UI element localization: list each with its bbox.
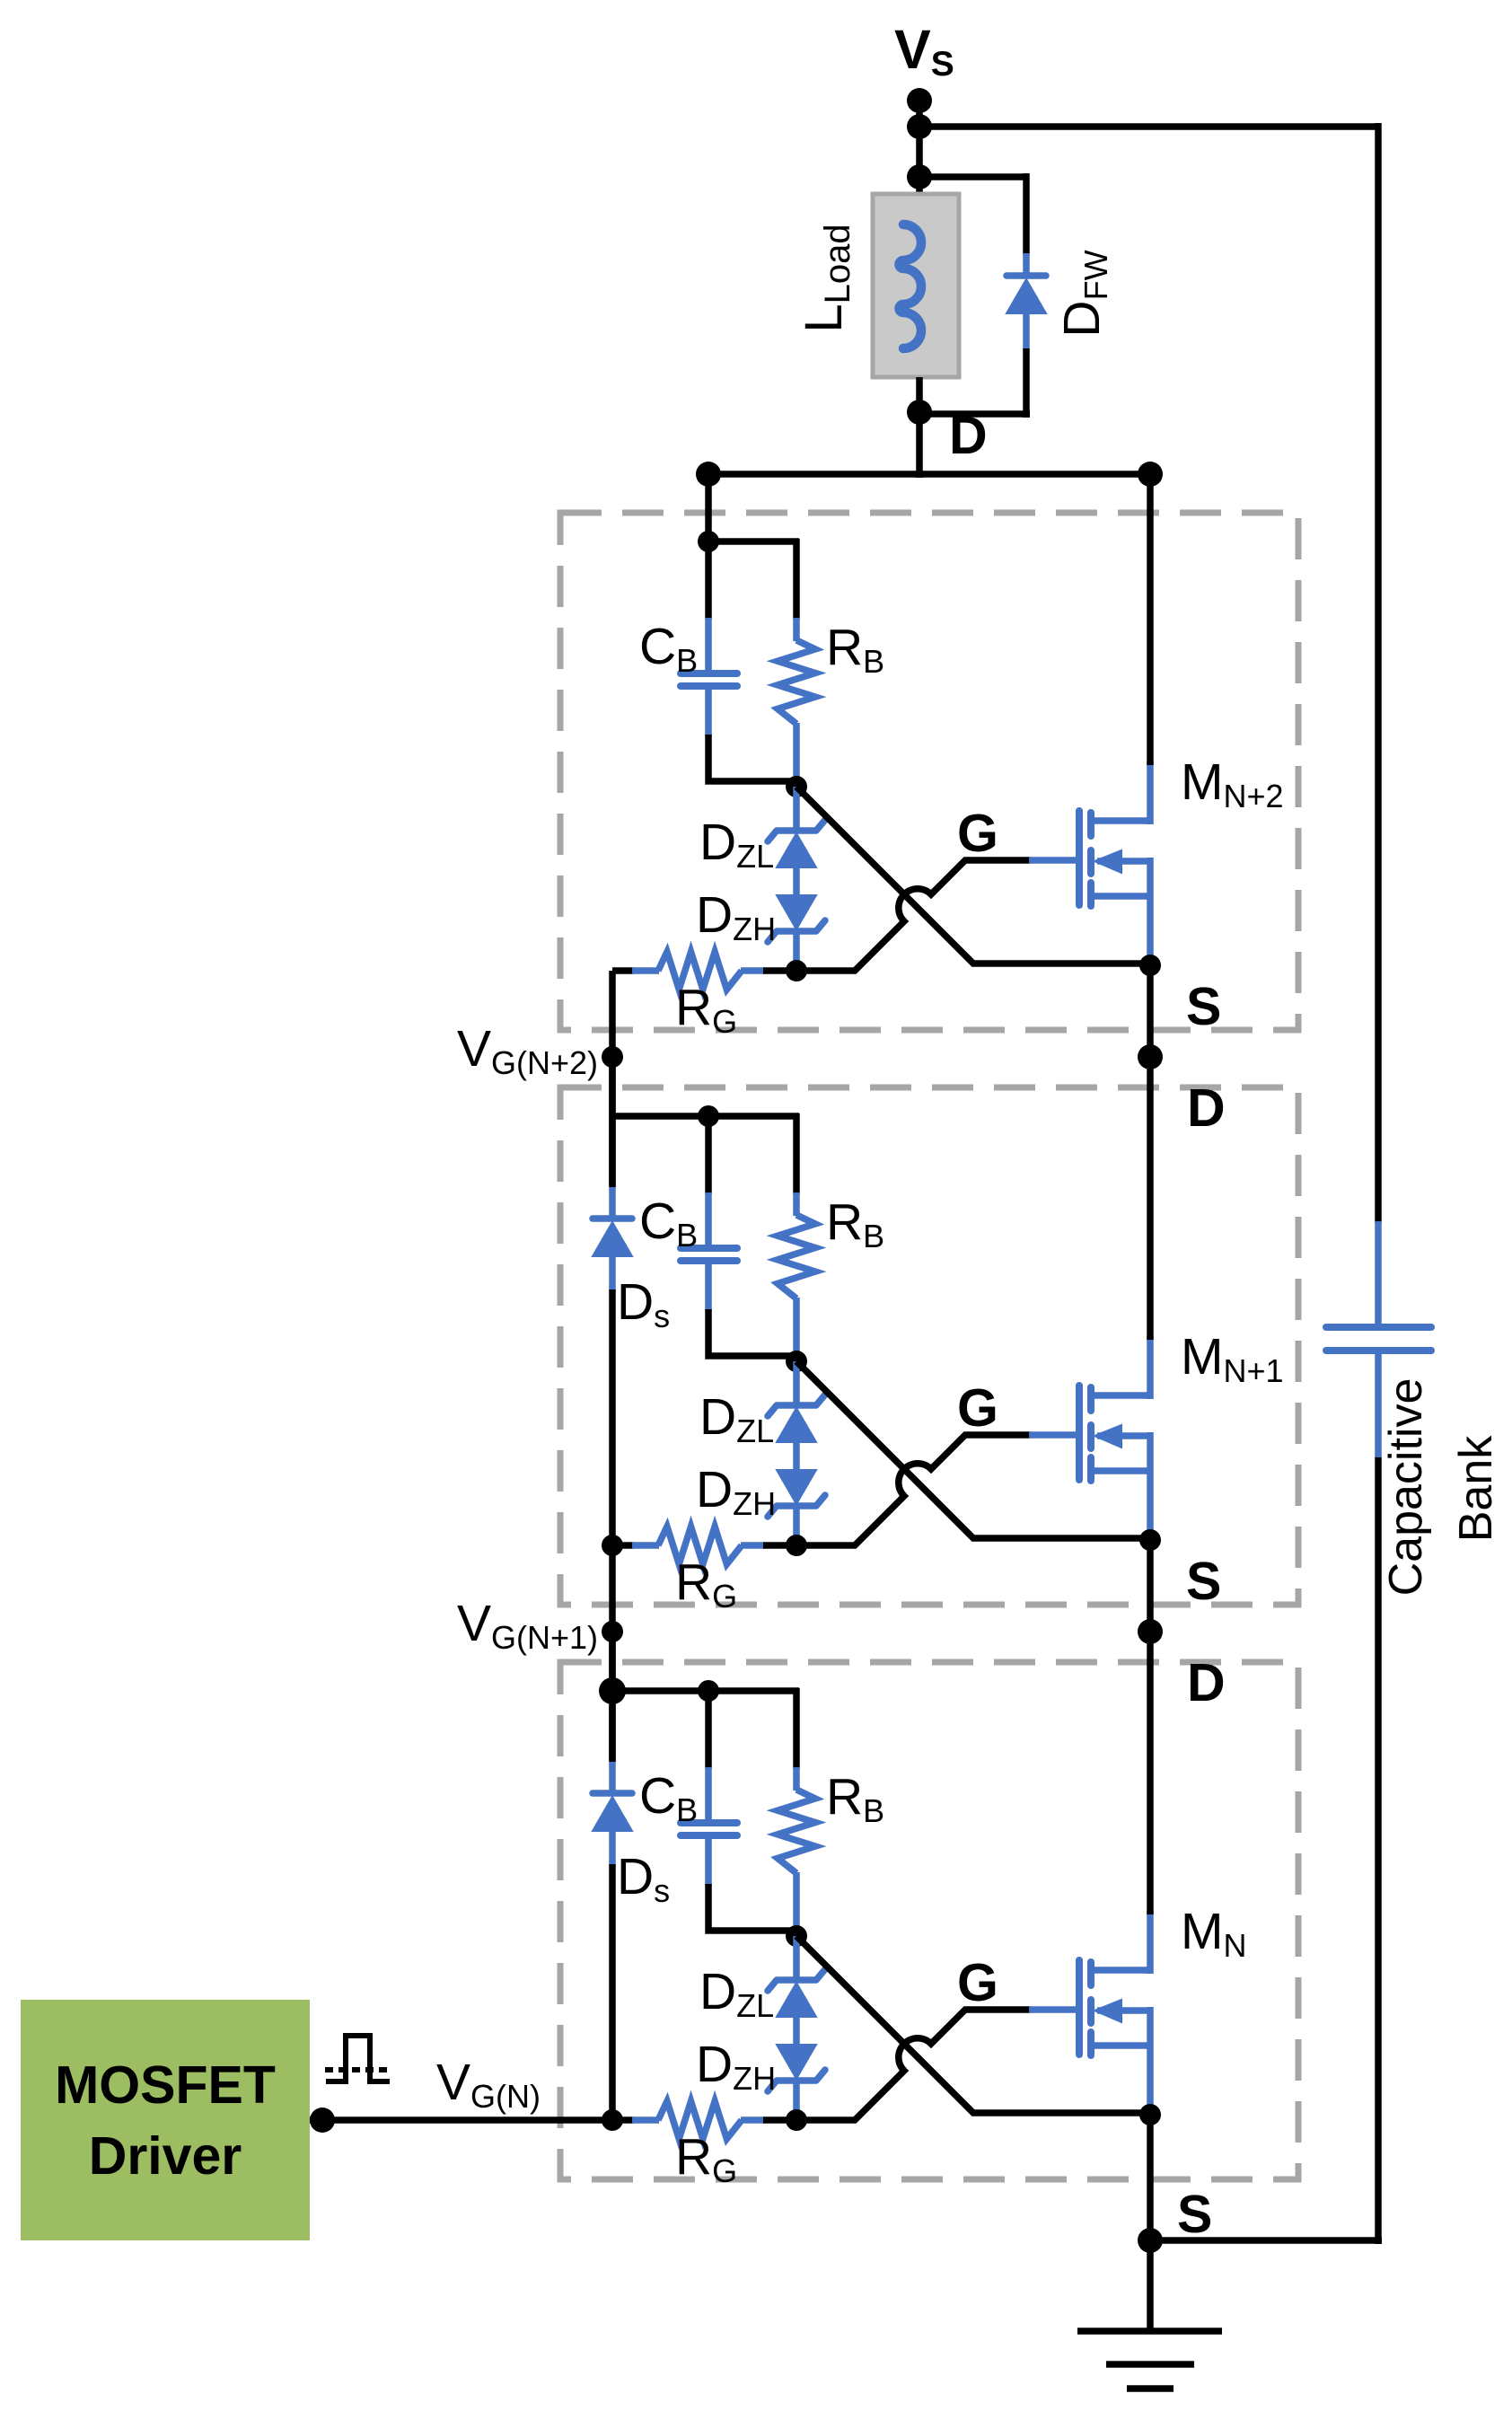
crossover wire junction to source (stage N) xyxy=(796,1936,1150,2113)
node RG tap dot (stage N+1) xyxy=(602,1535,623,1556)
svg-text:LLoad: LLoad xyxy=(795,224,857,332)
svg-text:MOSFET: MOSFET xyxy=(55,2055,276,2115)
diode D_FW lower lead xyxy=(1023,312,1030,350)
capacitor CB plates (stage N+1) xyxy=(681,1245,737,1252)
zener diode DZH cathode bar (stage N) xyxy=(768,2070,825,2091)
resistor RG zigzag (stage N+2) xyxy=(658,952,742,990)
zener diode DZH lower lead (stage N) xyxy=(793,2080,800,2120)
wire DZL-DZH link (stage N) xyxy=(793,2015,800,2046)
resistor RB upper lead (stage N+1) xyxy=(793,1113,800,1194)
resistor RB lower lead (stage N+2) xyxy=(793,723,800,787)
svg-text:Bank: Bank xyxy=(1450,1435,1502,1543)
capacitor bank bottom plate xyxy=(1326,1347,1431,1354)
wire bus to CB/RB branch xyxy=(705,474,712,545)
svg-text:G: G xyxy=(957,1953,998,2012)
resistor RB lower lead (stage N+1) xyxy=(793,1298,800,1361)
mosfet M_N+2 (stage N+2) xyxy=(1029,761,1150,965)
diode D_FW triangle xyxy=(1007,279,1046,313)
mosfet M_N (stage N) xyxy=(1029,1911,1150,2115)
wire left vertical VG(N+2) to Ds (stage N+1) xyxy=(609,1057,616,1187)
node RG/DZ junction dot (stage N) xyxy=(786,2109,807,2131)
zener diode DZL triangle (stage N+2) xyxy=(777,833,816,867)
MOSFET Driver block xyxy=(21,2000,310,2240)
svg-text:DZH: DZH xyxy=(696,886,776,947)
node CB/RB/DZ junction dot (stage N+2) xyxy=(786,776,807,797)
svg-text:G: G xyxy=(957,1378,998,1438)
resistor RG zigzag (stage N) xyxy=(658,2101,742,2139)
inductor L_Load body box xyxy=(873,194,959,377)
node Vs terminal dot xyxy=(907,88,932,113)
zener diode DZH triangle (stage N+2) xyxy=(777,895,816,929)
resistor RB zigzag (stage N+2) xyxy=(778,640,815,724)
svg-text:S: S xyxy=(1186,1552,1221,1611)
resistor RG right lead (stage N+1) xyxy=(741,1542,765,1549)
wire drain vertical (stage N+1) xyxy=(1147,1057,1154,1340)
wire driver output xyxy=(310,2116,616,2124)
wire CB-RB top link (stage N+2) xyxy=(708,538,799,545)
zener diode DZL cathode bar (stage N) xyxy=(768,1969,825,1991)
svg-text:VS: VS xyxy=(894,19,954,84)
node RG/DZ junction dot (stage N+1) xyxy=(786,1535,807,1556)
ground stem xyxy=(1147,2240,1154,2331)
svg-text:Ds: Ds xyxy=(617,1848,670,1909)
wire capacitive bank vertical (upper black) xyxy=(1375,123,1382,1223)
svg-text:VG(N+1): VG(N+1) xyxy=(457,1595,598,1656)
capacitor bank top plate xyxy=(1326,1324,1431,1331)
svg-text:MN: MN xyxy=(1181,1903,1246,1964)
wire load bottom to bus xyxy=(916,377,923,478)
svg-text:D: D xyxy=(1187,1653,1226,1712)
svg-text:VG(N): VG(N) xyxy=(436,2054,541,2115)
node CB/RB branch dot (stage N+2) xyxy=(698,531,719,552)
zener diode DZH triangle (stage N+1) xyxy=(777,1470,816,1504)
svg-text:Driver: Driver xyxy=(89,2126,242,2186)
svg-text:VG(N+2): VG(N+2) xyxy=(457,1020,598,1081)
zener diode DZL upper lead (stage N+2) xyxy=(793,787,800,832)
capacitor CB lower lead (stage N+2) xyxy=(705,686,712,736)
node CB/RB/DZ junction dot (stage N+1) xyxy=(786,1351,807,1372)
node CB/RB branch dot (stage N+1) xyxy=(698,1105,719,1127)
capacitor CB upper lead (stage N) xyxy=(705,1691,712,1769)
svg-text:Ds: Ds xyxy=(617,1273,670,1334)
crossover wire RG to gate with hop (stage N+1) xyxy=(796,1435,1031,1545)
zener diode DZL triangle (stage N+1) xyxy=(777,1408,816,1442)
wire left vertical to CB/RB branch (stage N+1) xyxy=(612,1113,712,1120)
wire drain vertical (stage N) xyxy=(1147,1632,1154,1914)
capacitor CB plates (stage N+2) xyxy=(681,670,737,677)
wire drain bus xyxy=(708,471,1150,478)
ground symbol xyxy=(1077,2331,1222,2389)
node bottom S dot xyxy=(1138,2228,1163,2253)
node Vs junction dot (top rail) xyxy=(907,114,932,139)
svg-text:RB: RB xyxy=(826,1768,884,1829)
wire D_FW upper lead xyxy=(1023,173,1030,255)
resistor RG zigzag (stage N+1) xyxy=(658,1527,742,1564)
diode Ds upper lead (stage N) xyxy=(609,1632,616,1760)
svg-text:RB: RB xyxy=(826,619,884,680)
resistor RB upper lead (stage N+2) xyxy=(793,539,800,620)
resistor RG left wire (stage N+1) xyxy=(612,1542,634,1549)
diode Ds cathode bar (stage N+1) xyxy=(593,1215,632,1222)
svg-text:CB: CB xyxy=(639,1767,698,1828)
node stage boundary dot right (S/D N+2) xyxy=(1138,1044,1163,1069)
diode Ds cathode bar (stage N) xyxy=(593,1790,632,1797)
wire DZL-DZH link (stage N+1) xyxy=(793,1440,800,1472)
node top branch dot (stage N) xyxy=(599,1677,626,1704)
inductor L_Load coil xyxy=(900,224,922,348)
node CB/RB branch dot (stage N) xyxy=(698,1680,719,1702)
svg-text:RB: RB xyxy=(826,1193,884,1254)
zener diode DZL upper lead (stage N) xyxy=(793,1936,800,1981)
capacitor CB upper lead (stage N+1) xyxy=(705,1116,712,1194)
diode Ds upper lead (stage N+1) xyxy=(609,1057,616,1185)
crossover wire RG to gate with hop (stage N) xyxy=(796,2010,1031,2120)
node stage boundary dot right (S/D N+1) xyxy=(1138,1619,1163,1644)
diode Ds lower lead (stage N+1) xyxy=(609,1256,616,1291)
capacitor CB plates (stage N) xyxy=(681,1819,737,1826)
wire to D_FW branch top xyxy=(916,173,1026,180)
node CB/RB/DZ junction dot (stage N) xyxy=(786,1925,807,1947)
diode Ds triangle (stage N) xyxy=(593,1797,632,1831)
wire CB-RB top link (stage N+1) xyxy=(708,1113,799,1120)
svg-text:CB: CB xyxy=(639,618,698,679)
crossover wire junction to source (stage N+2) xyxy=(796,787,1150,964)
svg-text:DZL: DZL xyxy=(699,1388,774,1449)
wire left vertical Ds to RG (stage N) xyxy=(609,1864,616,2124)
zener diode DZH cathode bar (stage N+2) xyxy=(768,920,825,942)
resistor RG left wire (stage N+2) xyxy=(612,967,634,974)
capacitor bank lower lead (blue) xyxy=(1375,1351,1382,1459)
svg-text:G: G xyxy=(957,804,998,863)
wire source to VG(N+1) level xyxy=(1147,1540,1154,1635)
node mosfet source dot (stage N+2) xyxy=(1139,955,1161,976)
wire D_FW branch bottom xyxy=(919,410,1030,418)
resistor RB lower lead (stage N) xyxy=(793,1872,800,1936)
wire capacitive bank vertical (lower black) xyxy=(1375,1457,1382,2244)
svg-text:MN+1: MN+1 xyxy=(1181,1328,1284,1389)
zener diode DZH lower lead (stage N+2) xyxy=(793,930,800,971)
zener diode DZH triangle (stage N) xyxy=(777,2045,816,2079)
pulse waveform symbol xyxy=(325,2036,390,2081)
wire top rail to capacitive bank xyxy=(916,123,1378,130)
diode D_FW cathode bar xyxy=(1007,272,1046,279)
resistor RG left wire (stage N) xyxy=(612,2116,634,2124)
svg-text:CB: CB xyxy=(639,1192,698,1254)
node driver/RG junction dot (stage N) xyxy=(602,2109,623,2131)
svg-text:DZH: DZH xyxy=(696,1461,776,1522)
node VG(N+2) dot xyxy=(602,1046,623,1068)
resistor RB zigzag (stage N+1) xyxy=(778,1215,815,1298)
node RG/DZ junction dot (stage N+2) xyxy=(786,960,807,981)
wire DZL-DZH link (stage N+2) xyxy=(793,866,800,897)
wire RG left corner down to VG(N+2) node xyxy=(609,971,616,1060)
node VG(N+1) dot xyxy=(602,1621,623,1642)
capacitor CB lower lead (stage N) xyxy=(705,1835,712,1886)
zener diode DZL upper lead (stage N+1) xyxy=(793,1361,800,1406)
zener diode DZH lower lead (stage N+1) xyxy=(793,1505,800,1545)
svg-text:D: D xyxy=(949,406,988,465)
wire left vertical to CB/RB branch (stage N) xyxy=(612,1687,712,1694)
svg-text:DZH: DZH xyxy=(696,2036,776,2097)
wire left vertical VG(N+1) to Ds (stage N) xyxy=(609,1632,616,1762)
diode Ds lower lead (stage N) xyxy=(609,1831,616,1866)
wire left vertical Ds to VG(N+1) (stage N+1) xyxy=(609,1289,616,1636)
zener diode DZL cathode bar (stage N+2) xyxy=(768,820,825,841)
svg-text:Capacitive: Capacitive xyxy=(1380,1378,1432,1597)
wire drain vertical (stage N+2) xyxy=(1147,474,1154,765)
resistor RB zigzag (stage N) xyxy=(778,1790,815,1873)
crossover wire junction to source (stage N+1) xyxy=(796,1361,1150,1538)
resistor RB upper lead (stage N) xyxy=(793,1688,800,1769)
crossover wire RG to gate with hop (stage N+2) xyxy=(796,860,1031,971)
zener diode DZL triangle (stage N) xyxy=(777,1983,816,2017)
wire Vs vertical into load xyxy=(916,101,923,194)
mosfet M_N+1 (stage N+1) xyxy=(1029,1336,1150,1540)
dashed cell boundary (stage N+2) xyxy=(560,513,1298,1030)
svg-text:S: S xyxy=(1186,977,1221,1036)
dashed cell boundary (stage N) xyxy=(560,1662,1298,2179)
node mosfet source dot (stage N+1) xyxy=(1139,1529,1161,1551)
node load/D_FW top junction dot xyxy=(907,164,932,189)
svg-text:DFW: DFW xyxy=(1053,250,1114,337)
svg-text:MN+2: MN+2 xyxy=(1181,753,1284,814)
svg-text:DZL: DZL xyxy=(699,814,774,875)
node bus left dot xyxy=(696,462,721,487)
node bus right dot xyxy=(1138,462,1163,487)
zener diode DZL cathode bar (stage N+1) xyxy=(768,1395,825,1416)
node driver output dot xyxy=(310,2108,335,2133)
resistor RG right lead (stage N) xyxy=(741,2116,765,2124)
zener diode DZH cathode bar (stage N+1) xyxy=(768,1495,825,1517)
svg-text:D: D xyxy=(1187,1078,1226,1138)
node load bottom dot (drain node) xyxy=(907,400,932,425)
capacitor CB upper lead (stage N+2) xyxy=(705,541,712,620)
wire mosfet MN source to bottom S node xyxy=(1147,2115,1154,2244)
resistor RG right lead (stage N+2) xyxy=(741,967,765,974)
dashed cell boundary (stage N+1) xyxy=(560,1087,1298,1605)
wire source to VG(N+2) level xyxy=(1147,965,1154,1060)
capacitor bank upper lead (blue) xyxy=(1375,1221,1382,1324)
capacitor CB lower lead (stage N+1) xyxy=(705,1261,712,1311)
node mosfet source dot (stage N) xyxy=(1139,2104,1161,2125)
svg-text:DZL: DZL xyxy=(699,1963,774,2024)
svg-text:S: S xyxy=(1177,2185,1212,2244)
wire CB-RB top link (stage N) xyxy=(708,1687,799,1694)
diode Ds triangle (stage N+1) xyxy=(593,1222,632,1256)
wire bottom source to capacitive bank xyxy=(1150,2237,1382,2244)
